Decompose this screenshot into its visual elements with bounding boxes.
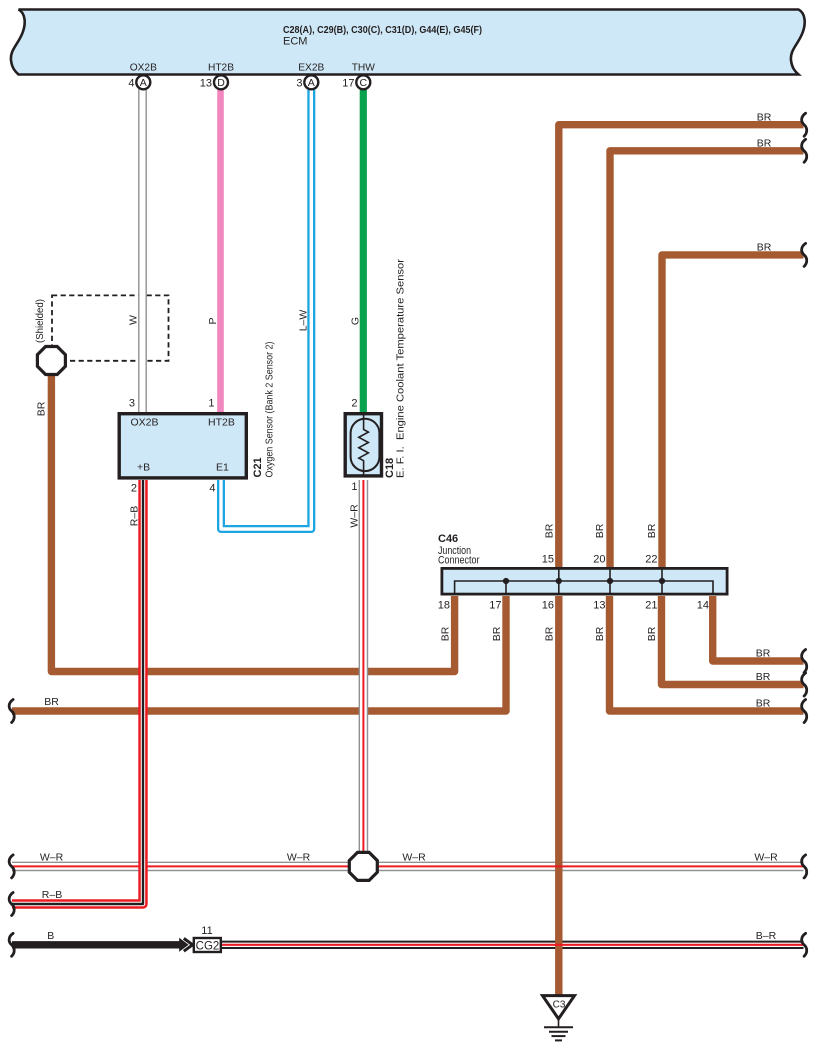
ECM pin 17 circle C [342, 75, 370, 89]
svg-text:B–R: B–R [756, 930, 777, 942]
shield dashed box [52, 295, 169, 360]
svg-text:17: 17 [489, 600, 501, 612]
break symbol top BR 3 [802, 243, 807, 266]
wire L-W (EX2B to C21 E1) [221, 89, 311, 529]
svg-text:P: P [207, 317, 219, 324]
wire BR C46 pin 14 to right edge [713, 596, 804, 661]
svg-text:W–R: W–R [349, 504, 361, 528]
wire P (HT2B to C21) [217, 89, 224, 413]
svg-text:13: 13 [200, 78, 212, 90]
ECM pin 3 circle A [296, 75, 318, 89]
wire BR C46 pin 22 to right edge [662, 255, 804, 567]
break symbol left W-R [9, 855, 14, 878]
svg-text:W–R: W–R [287, 852, 311, 864]
ECM block [11, 10, 805, 75]
svg-text:OX2B: OX2B [130, 63, 157, 74]
svg-text:D: D [217, 77, 225, 89]
C46 bus junction dot 21 [659, 578, 665, 584]
svg-text:17: 17 [342, 78, 354, 90]
svg-text:3: 3 [296, 78, 302, 90]
svg-text:W–R: W–R [40, 852, 64, 864]
shield octagon [37, 347, 65, 375]
ECM pin 4 circle A [128, 75, 150, 89]
svg-text:1: 1 [351, 481, 357, 493]
svg-text:C3: C3 [553, 1000, 566, 1011]
svg-text:BR: BR [44, 696, 59, 708]
C46 internal bus [455, 569, 713, 595]
svg-text:BR: BR [757, 138, 772, 150]
svg-text:(Shielded): (Shielded) [34, 299, 46, 343]
break symbol right B-R [802, 933, 807, 956]
svg-text:ECM: ECM [283, 36, 307, 48]
svg-text:CG2: CG2 [196, 941, 220, 953]
svg-text:BR: BR [594, 626, 606, 641]
svg-text:E. F. I. Engine Coolant Tempe: E. F. I. Engine Coolant Temperature Sens… [395, 258, 407, 478]
svg-text:W: W [128, 315, 140, 325]
wire BR C46 pin 13 to right edge [610, 596, 804, 711]
wire BR C46 pin 20 to right edge [610, 151, 804, 567]
break symbol left BR [9, 700, 14, 723]
svg-text:R–B: R–B [129, 506, 141, 526]
wire BR left edge to C46 pin 17 [12, 596, 506, 711]
svg-text:E1: E1 [216, 462, 229, 474]
junction connector C46 box [442, 568, 727, 594]
connector C21 box [119, 414, 246, 478]
wire BR C46 pin 16 to ground [555, 596, 562, 996]
svg-text:THW: THW [352, 63, 376, 74]
wire BR C46 pin 21 to right edge [662, 596, 804, 685]
svg-text:Connector: Connector [438, 555, 480, 567]
svg-text:+B: +B [137, 462, 150, 474]
svg-text:BR: BR [757, 242, 772, 254]
wire W-R horizontal base (left edge to right edge) [12, 862, 804, 870]
svg-text:BR: BR [491, 626, 503, 641]
junction octagon W-R [349, 852, 377, 880]
wire G (THW to C18) [360, 89, 367, 413]
svg-text:16: 16 [542, 600, 554, 612]
svg-text:21: 21 [645, 600, 657, 612]
svg-text:HT2B: HT2B [208, 63, 234, 74]
svg-text:B: B [47, 930, 54, 942]
ECM pin 13 circle D [200, 75, 228, 89]
wire W-R vertical (C18 to junction) [359, 480, 367, 855]
connector CG2 box [194, 938, 221, 952]
wire W (OX2B to C21) [139, 89, 146, 413]
C46 bus junction dot 13 [607, 578, 613, 584]
svg-text:1: 1 [208, 398, 214, 410]
svg-text:2: 2 [351, 398, 357, 410]
svg-text:EX2B: EX2B [298, 63, 324, 74]
splice arrow into CG2 [179, 938, 192, 952]
svg-text:4: 4 [128, 78, 134, 90]
svg-text:4: 4 [209, 483, 215, 495]
svg-text:C21: C21 [252, 457, 264, 477]
svg-text:BR: BR [646, 626, 658, 641]
svg-text:18: 18 [438, 600, 450, 612]
svg-text:C28(A), C29(B), C30(C), C31(D): C28(A), C29(B), C30(C), C31(D), G44(E), … [283, 24, 482, 36]
svg-text:15: 15 [542, 554, 554, 566]
break symbol bottom right BR 1 [802, 650, 807, 673]
wire BR C46 pin 15 to right edge [559, 125, 804, 567]
svg-text:20: 20 [593, 554, 605, 566]
svg-text:A: A [140, 77, 147, 89]
svg-text:BR: BR [440, 626, 452, 641]
svg-text:14: 14 [697, 600, 709, 612]
break symbol bottom right BR 3 [802, 700, 807, 723]
sensor C18 box [345, 414, 381, 476]
svg-text:C46: C46 [438, 533, 458, 545]
svg-text:BR: BR [646, 523, 658, 538]
svg-text:OX2B: OX2B [131, 417, 159, 429]
svg-text:A: A [308, 77, 315, 89]
svg-text:BR: BR [756, 648, 771, 660]
wire B-R base (CG2 to right edge) [222, 941, 804, 949]
svg-text:BR: BR [544, 626, 556, 641]
break symbol left B [9, 933, 14, 956]
svg-text:3: 3 [129, 398, 135, 410]
svg-text:BR: BR [544, 523, 556, 538]
svg-text:13: 13 [593, 600, 605, 612]
svg-text:G: G [350, 317, 362, 325]
C46 bus junction dot 16 [556, 578, 562, 584]
break symbol top BR 2 [802, 139, 807, 162]
svg-text:2: 2 [131, 483, 137, 495]
wire R-B (C21 +B to left edge) [12, 480, 143, 904]
svg-text:W–R: W–R [402, 852, 426, 864]
C18 resistor element [351, 413, 380, 477]
svg-text:BR: BR [594, 523, 606, 538]
svg-text:BR: BR [756, 698, 771, 710]
break symbol left R-B [9, 893, 14, 916]
wire W-R red stripe (horizontal) [12, 865, 804, 867]
svg-text:BR: BR [36, 401, 48, 416]
svg-text:11: 11 [201, 925, 212, 937]
break symbol right W-R [802, 855, 807, 878]
break symbol top BR 1 [802, 113, 807, 136]
svg-text:R–B: R–B [42, 889, 62, 901]
C46 bus junction dot 17 [503, 578, 509, 584]
break symbol bottom right BR 2 [802, 673, 807, 696]
svg-text:C: C [360, 77, 368, 89]
ground C3 [543, 996, 575, 1041]
svg-text:BR: BR [757, 112, 772, 124]
svg-text:W–R: W–R [754, 852, 778, 864]
wire BR shield to C46 pin 18 [51, 373, 454, 672]
svg-text:BR: BR [756, 671, 771, 683]
wire B-R red stripe [222, 944, 804, 946]
svg-text:HT2B: HT2B [208, 417, 235, 429]
svg-text:Oxygen Sensor (Bank 2 Sensor 2: Oxygen Sensor (Bank 2 Sensor 2) [264, 342, 276, 478]
wire B (left edge to CG2) [12, 941, 181, 948]
svg-text:22: 22 [645, 554, 657, 566]
svg-text:L–W: L–W [298, 310, 310, 332]
